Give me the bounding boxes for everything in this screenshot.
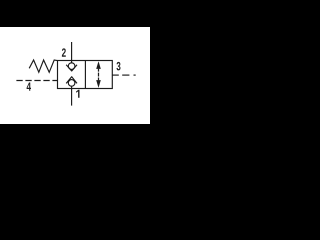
check valve ball top bbox=[68, 63, 75, 70]
check valve seat top bbox=[66, 65, 77, 71]
bottom letterbox band bbox=[0, 124, 150, 150]
port 2 line bbox=[71, 42, 73, 63]
port 3 line (dash-dot) bbox=[112, 74, 119, 76]
check valve ball bottom bbox=[68, 80, 75, 87]
white drawing band bbox=[0, 27, 150, 124]
pilot line port 4 (dashed) bbox=[16, 80, 57, 82]
flow arrow head up bbox=[96, 61, 101, 69]
top letterbox band bbox=[0, 0, 150, 27]
flow arrow shaft bbox=[98, 69, 100, 80]
position divider bbox=[84, 61, 86, 89]
valve body outline bbox=[58, 61, 113, 89]
port label 1 bbox=[76, 90, 79, 98]
flow arrow head down bbox=[96, 80, 101, 88]
port 1 line bbox=[71, 86, 73, 106]
port label 3 bbox=[117, 62, 121, 71]
port label 4 bbox=[27, 82, 31, 90]
check valve seat bottom bbox=[66, 77, 77, 84]
port label 2 bbox=[62, 48, 66, 56]
spring bbox=[29, 60, 57, 72]
